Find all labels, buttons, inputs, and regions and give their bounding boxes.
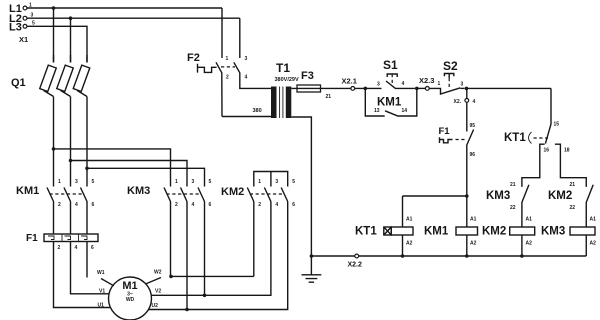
svg-text:6: 6 [209, 202, 212, 208]
svg-text:A2: A2 [406, 241, 413, 247]
svg-text:5: 5 [92, 179, 95, 185]
svg-text:22: 22 [510, 205, 516, 211]
svg-text:KM2: KM2 [548, 190, 572, 202]
svg-text:X2.2: X2.2 [348, 262, 363, 269]
svg-text:4: 4 [275, 202, 278, 208]
svg-text:4: 4 [473, 99, 476, 105]
svg-text:4: 4 [75, 202, 78, 208]
svg-text:A2: A2 [590, 241, 597, 247]
svg-text:X2.: X2. [454, 99, 462, 105]
svg-text:U2: U2 [152, 303, 159, 309]
svg-text:KT1: KT1 [504, 132, 526, 144]
svg-text:A1: A1 [526, 217, 533, 223]
svg-text:A2: A2 [526, 241, 533, 247]
svg-text:V2: V2 [155, 289, 161, 295]
svg-text:6: 6 [92, 202, 95, 208]
svg-text:Q1: Q1 [11, 77, 26, 89]
svg-text:KM3: KM3 [541, 226, 565, 238]
svg-text:KM3: KM3 [486, 190, 510, 202]
svg-text:KM1: KM1 [16, 185, 39, 197]
svg-text:2: 2 [226, 75, 229, 81]
svg-text:KT1: KT1 [355, 226, 377, 238]
svg-text:V1: V1 [99, 289, 105, 295]
svg-text:A1: A1 [406, 217, 413, 223]
svg-text:2: 2 [58, 202, 61, 208]
svg-text:2: 2 [258, 202, 261, 208]
svg-text:KM2: KM2 [221, 186, 244, 198]
svg-text:T1: T1 [276, 61, 290, 75]
svg-text:3: 3 [75, 179, 78, 185]
svg-text:6: 6 [91, 245, 94, 251]
svg-text:4: 4 [192, 202, 195, 208]
svg-text:W1: W1 [97, 270, 105, 276]
svg-text:L3: L3 [9, 22, 22, 34]
svg-text:22: 22 [570, 205, 576, 211]
svg-text:KM1: KM1 [424, 226, 449, 238]
svg-text:13: 13 [374, 108, 380, 114]
svg-text:WD: WD [126, 297, 135, 303]
svg-text:96: 96 [470, 152, 476, 158]
svg-text:S1: S1 [383, 58, 398, 72]
svg-text:18: 18 [564, 148, 570, 154]
svg-text:3: 3 [377, 82, 380, 88]
svg-text:15: 15 [554, 122, 560, 128]
svg-text:380V/29V: 380V/29V [275, 77, 299, 83]
svg-text:A1: A1 [590, 217, 597, 223]
svg-text:1: 1 [58, 179, 61, 185]
svg-text:F3: F3 [301, 70, 314, 82]
svg-text:1: 1 [258, 179, 261, 185]
svg-text:F2: F2 [187, 52, 200, 64]
svg-text:KM2: KM2 [482, 226, 506, 238]
svg-text:A1: A1 [470, 217, 477, 223]
svg-text:X1: X1 [19, 35, 28, 44]
svg-text:4: 4 [245, 75, 248, 81]
svg-text:4: 4 [75, 245, 78, 251]
svg-text:21: 21 [326, 94, 332, 100]
svg-text:1: 1 [175, 179, 178, 185]
svg-text:3: 3 [461, 82, 464, 88]
svg-text:21: 21 [570, 182, 576, 188]
svg-text:21: 21 [510, 182, 516, 188]
svg-text:16: 16 [544, 148, 550, 154]
svg-text:14: 14 [402, 108, 408, 114]
svg-text:6: 6 [292, 202, 295, 208]
svg-text:X2.3: X2.3 [419, 76, 434, 85]
svg-text:F1: F1 [26, 233, 38, 244]
svg-text:5: 5 [209, 179, 212, 185]
svg-text:3: 3 [275, 179, 278, 185]
svg-text:F1: F1 [439, 126, 451, 137]
svg-text:X2.1: X2.1 [342, 77, 357, 86]
svg-text:A2: A2 [470, 241, 477, 247]
svg-text:S2: S2 [443, 59, 458, 73]
svg-text:3: 3 [192, 179, 195, 185]
svg-text:1: 1 [226, 56, 229, 62]
svg-text:W2: W2 [154, 270, 162, 276]
svg-text:95: 95 [470, 123, 476, 129]
svg-text:2: 2 [175, 202, 178, 208]
svg-text:M1: M1 [122, 280, 137, 292]
svg-text:380: 380 [253, 108, 262, 114]
svg-text:5: 5 [292, 179, 295, 185]
svg-text:KM1: KM1 [377, 97, 402, 109]
svg-text:KM3: KM3 [127, 185, 150, 197]
svg-text:2: 2 [58, 245, 61, 251]
svg-text:3: 3 [245, 56, 248, 62]
svg-text:1: 1 [438, 81, 441, 87]
svg-text:4: 4 [402, 81, 405, 87]
svg-text:U1: U1 [98, 303, 105, 309]
